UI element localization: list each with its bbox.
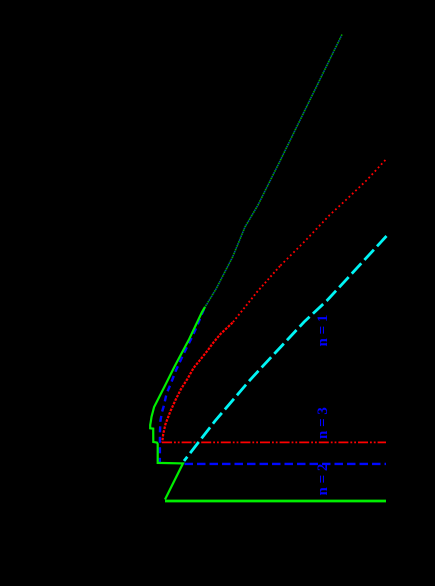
red dotted curve: top sparse segment <box>280 160 385 266</box>
cyan long-dash line n=1 <box>184 236 387 461</box>
blue dashed horizontal line n=2 <box>185 463 387 465</box>
green dotted upper line (dense alternating dots) <box>205 35 342 308</box>
red dotted curve: dense lower segment <box>162 323 232 443</box>
blue dashed overlay on upper line <box>204 35 342 310</box>
svg-text:n = 1: n = 1 <box>315 315 331 347</box>
svg-text:n = 3: n = 3 <box>315 407 331 439</box>
svg-text:n = 2: n = 2 <box>315 464 331 496</box>
red dotted curve: middle segment <box>233 266 280 323</box>
red dash-dot-dot horizontal line n=3 <box>162 441 386 443</box>
green solid main curve with steps <box>150 307 205 500</box>
green bottom horizontal line <box>165 500 386 503</box>
blue dashed curve (separating from bundle) <box>160 309 204 463</box>
